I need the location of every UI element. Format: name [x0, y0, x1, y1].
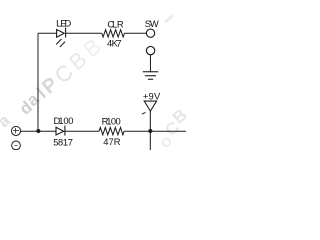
svg-text:0: 0 [68, 115, 73, 126]
svg-text:W: W [150, 18, 159, 29]
svg-text:V: V [154, 91, 161, 102]
svg-text:7: 7 [116, 37, 121, 48]
svg-text:R: R [114, 136, 121, 147]
svg-text:7: 7 [68, 136, 73, 147]
svg-text:9: 9 [149, 91, 154, 102]
svg-text:0: 0 [115, 116, 120, 127]
svg-text:R: R [117, 18, 124, 29]
svg-text:D: D [65, 18, 72, 29]
